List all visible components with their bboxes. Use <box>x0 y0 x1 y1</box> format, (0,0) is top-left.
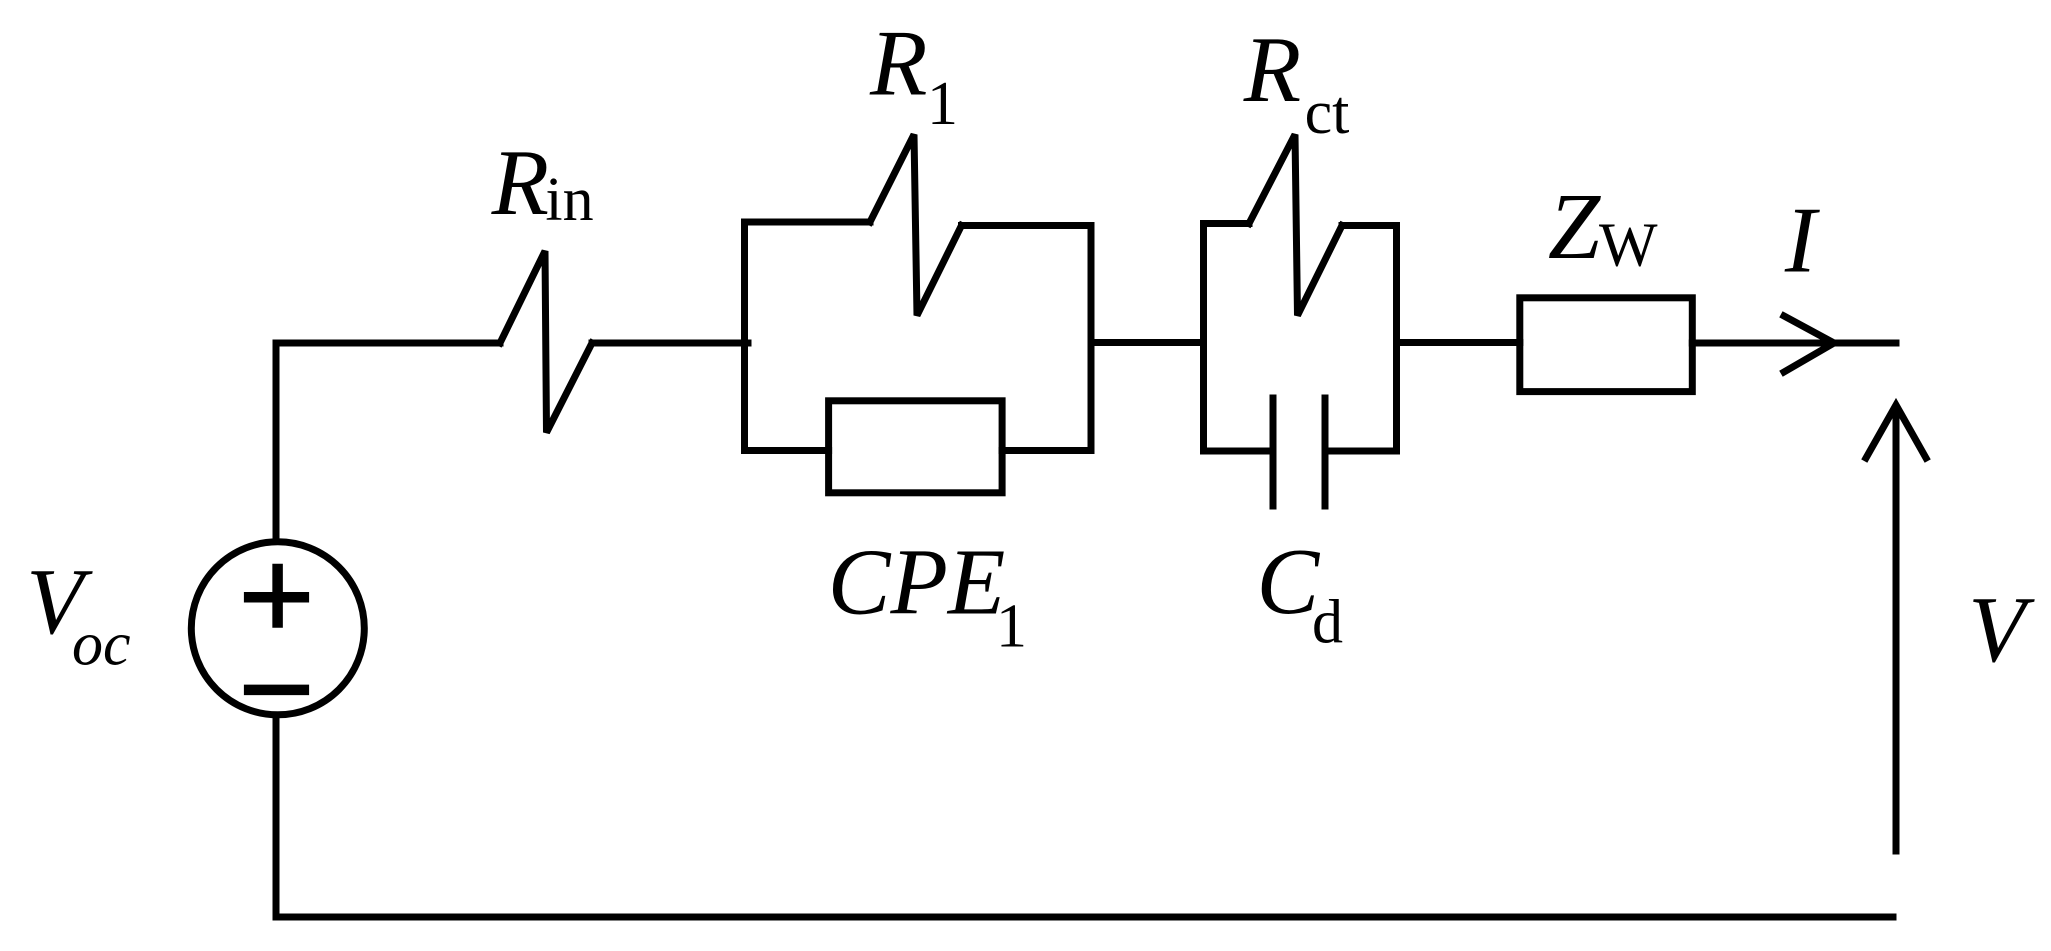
capacitor Cd left plate <box>1270 395 1277 510</box>
svg-text:in: in <box>545 166 593 234</box>
wire R1 block to Rct block <box>1091 339 1204 346</box>
node Rct-block right edge <box>1393 226 1400 452</box>
svg-text:Z: Z <box>1548 175 1602 279</box>
minus sign of source <box>244 685 309 696</box>
svg-text:I: I <box>1784 189 1820 293</box>
svg-text:CPE: CPE <box>828 531 1006 635</box>
wire Rct top-right branch <box>1342 222 1397 229</box>
svg-text:R: R <box>491 131 549 235</box>
resistor R1 <box>870 135 962 316</box>
wire Rct top-left branch <box>1204 220 1250 227</box>
capacitor Cd right plate <box>1322 395 1329 510</box>
node R1-block right edge <box>1088 226 1095 451</box>
node Rct-block left edge <box>1200 224 1207 452</box>
wire R1 top-right branch <box>962 222 1092 229</box>
svg-text:C: C <box>1257 530 1321 634</box>
wire Rct bottom-left branch <box>1204 448 1274 455</box>
wire Rct bottom-right branch <box>1325 448 1397 455</box>
resistor Rin <box>500 251 592 433</box>
svg-text:d: d <box>1312 589 1343 657</box>
plus sign of source <box>244 592 309 603</box>
node R1-block left edge <box>741 222 748 451</box>
capacitor CPE1 box <box>829 401 1003 493</box>
wire source bottom vertical <box>273 716 280 917</box>
wire top-left horizontal from source to Rin <box>276 340 500 347</box>
svg-text:W: W <box>1599 212 1658 280</box>
resistor Rct <box>1249 135 1342 316</box>
svg-text:R: R <box>1243 18 1301 122</box>
wire R1 bottom-left branch <box>745 447 829 454</box>
current arrowhead I <box>1784 316 1834 372</box>
wire R1 top-left branch <box>745 219 871 226</box>
svg-text:R: R <box>869 12 927 116</box>
voltage arrowhead V <box>1866 405 1926 458</box>
wire bottom return <box>276 914 1893 921</box>
svg-text:V: V <box>1968 578 2035 682</box>
svg-text:ct: ct <box>1305 79 1350 147</box>
warburg element Zw box <box>1520 298 1693 392</box>
svg-text:1: 1 <box>927 70 958 138</box>
voltage arrow V line <box>1893 412 1900 851</box>
wire left vertical from top corner down to source top <box>273 343 280 541</box>
wire Rin to R1 block <box>592 340 748 347</box>
svg-text:oc: oc <box>72 611 131 679</box>
svg-text:1: 1 <box>996 593 1027 661</box>
wire Rct block to Zw <box>1397 339 1520 346</box>
wire Zw to output node <box>1692 340 1896 347</box>
voltage source Voc circle <box>191 542 364 715</box>
wire R1 bottom-right branch <box>1002 447 1091 454</box>
